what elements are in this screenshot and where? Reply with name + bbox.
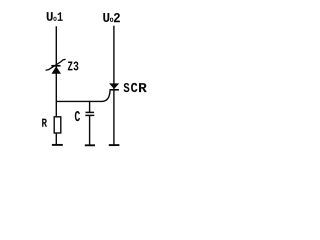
capacitor C — [85, 112, 94, 115]
wire right branch vertical (Uo2 through SCR to bottom) — [113, 26, 115, 145]
wire resistor to bottom terminal — [55, 133, 57, 145]
wire capacitor bottom lead — [89, 115, 91, 145]
zener diode Z3 — [46, 59, 66, 74]
label SCR — [124, 83, 147, 92]
terminal bar left — [52, 144, 63, 146]
terminal bar right — [109, 144, 120, 146]
resistor R — [54, 117, 61, 133]
wire capacitor top lead — [89, 101, 91, 113]
terminal bar middle — [85, 144, 95, 146]
thyristor SCR — [109, 83, 119, 89]
wire left branch vertical (Uo1 to resistor) — [55, 26, 57, 117]
node Uo1 — [47, 12, 63, 21]
label C — [75, 111, 80, 121]
label R — [42, 119, 47, 127]
wire horizontal to SCR gate — [56, 91, 110, 102]
label Z3 — [68, 62, 79, 71]
node Uo2 — [103, 13, 120, 22]
